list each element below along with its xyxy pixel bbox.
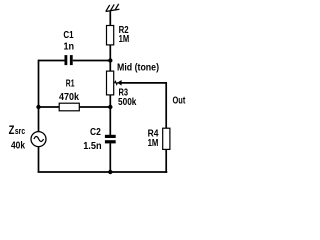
svg-text:C1: C1 [63, 30, 74, 41]
svg-text:Out: Out [173, 95, 186, 106]
svg-text:1.5n: 1.5n [83, 141, 101, 152]
svg-text:470k: 470k [59, 92, 79, 103]
svg-text:500k: 500k [118, 97, 137, 108]
svg-text:40k: 40k [11, 141, 25, 152]
svg-text:1n: 1n [64, 41, 75, 52]
svg-text:R1: R1 [66, 78, 75, 89]
svg-text:src: src [15, 126, 25, 136]
svg-text:C2: C2 [90, 127, 101, 138]
svg-text:Mid (tone): Mid (tone) [117, 62, 159, 73]
svg-text:Z: Z [9, 123, 15, 137]
svg-text:1M: 1M [119, 34, 130, 45]
svg-text:1M: 1M [148, 138, 159, 149]
